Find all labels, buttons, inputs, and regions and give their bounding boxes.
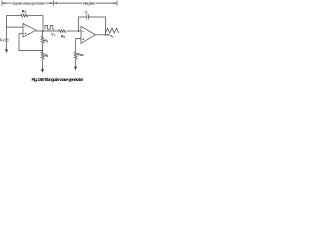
dimension annotation: Integrator bbox=[54, 1, 117, 6]
svg-text:v′o: v′o bbox=[51, 33, 56, 38]
svg-text:Square wave generator: Square wave generator bbox=[12, 1, 46, 6]
wire: R4 to A2 inverting input bbox=[67, 30, 82, 32]
svg-text:Integrator: Integrator bbox=[83, 1, 96, 6]
svg-text:−: − bbox=[24, 25, 26, 29]
resistor R2 (divider upper) bbox=[42, 31, 44, 36]
svg-text:R1: R1 bbox=[22, 9, 27, 15]
svg-text:vo: vo bbox=[110, 34, 114, 39]
op-amp A2 bbox=[81, 26, 95, 43]
wire: A1 output bbox=[36, 30, 59, 32]
capacitor C2 bbox=[86, 14, 88, 19]
svg-text:R4: R4 bbox=[61, 34, 65, 39]
svg-text:R3: R3 bbox=[44, 54, 48, 59]
svg-text:R2: R2 bbox=[44, 39, 48, 44]
wire: non-inverting loop A1 bbox=[19, 34, 43, 51]
svg-text:+: + bbox=[82, 38, 84, 42]
node: A2 inverting input bbox=[78, 30, 80, 32]
wire: C1 to ground bbox=[6, 41, 8, 50]
wire: inverting input A1 bbox=[7, 26, 24, 28]
ground arrow (below R3) bbox=[41, 69, 44, 73]
resistor R1 bbox=[21, 14, 28, 17]
svg-text:C: C bbox=[85, 11, 88, 15]
resistor ROM bbox=[74, 52, 77, 59]
resistor R4 (integrator input) bbox=[59, 30, 66, 33]
wire: feedback loop right and down bbox=[88, 17, 105, 35]
wire: A2 output bbox=[95, 34, 109, 36]
capacitor C1 bbox=[4, 38, 8, 40]
svg-text:Fig. 2.65 Triangular wave gene: Fig. 2.65 Triangular wave generator bbox=[32, 77, 84, 82]
svg-text:+: + bbox=[24, 32, 26, 36]
wire: feedback loop up bbox=[79, 17, 87, 31]
wire: feedback drop to output node bbox=[42, 16, 44, 32]
node: divider tap bbox=[42, 50, 44, 52]
wire: left rail bbox=[6, 16, 8, 40]
svg-text:ROM: ROM bbox=[77, 53, 83, 58]
triangular wave symbol bbox=[106, 28, 119, 33]
square wave symbol bbox=[45, 25, 55, 29]
op-amp A1 bbox=[23, 24, 36, 38]
svg-text:C1: C1 bbox=[0, 38, 4, 43]
svg-text:−: − bbox=[82, 29, 84, 33]
node: output of A1 bbox=[42, 30, 44, 32]
node: feedback junction on output bbox=[105, 34, 107, 36]
resistor R3 (divider lower) bbox=[41, 52, 44, 59]
wire: top feedback rail A1 bbox=[7, 15, 21, 17]
ground arrow (below ROM) bbox=[74, 67, 77, 71]
wire: A2 non-inverting to ROM bbox=[76, 39, 82, 52]
dimension annotation: Square wave generator bbox=[2, 1, 54, 6]
ground arrow (below C1) bbox=[5, 49, 8, 53]
